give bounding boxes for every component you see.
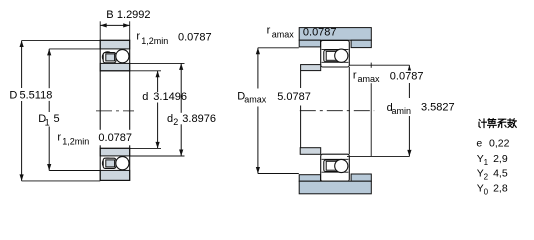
- svg-text:r: r: [267, 25, 271, 37]
- table title calculation factors (Chinese): [479, 119, 516, 128]
- svg-text:2,9: 2,9: [493, 153, 508, 165]
- right view housing shoulder lower right: [351, 174, 371, 181]
- right view lower inner raceway line: [322, 158, 349, 160]
- left view bore line left: [99, 71, 101, 130]
- svg-text:0: 0: [484, 188, 489, 197]
- svg-text:0.0787: 0.0787: [98, 132, 132, 144]
- svg-text:3.8976: 3.8976: [182, 113, 216, 125]
- svg-text:r: r: [353, 69, 357, 81]
- left view centerline: [96, 110, 134, 112]
- right view lower ball: [335, 159, 348, 172]
- dimension d2 extension lines: [130, 62, 185, 64]
- label ramax middle background: [352, 71, 424, 84]
- dimension d extension lines: [130, 70, 161, 72]
- right view housing shoulder upper left: [299, 40, 320, 47]
- svg-text:3.5827: 3.5827: [421, 101, 455, 113]
- dimension B extension lines: [99, 21, 101, 40]
- svg-text:5: 5: [54, 113, 60, 125]
- right view shaft right end line: [370, 63, 372, 68]
- dimension d2 arrows: [179, 63, 183, 70]
- left view outer ring upper cross-section: [100, 40, 130, 49]
- left view upper cage pocket: [106, 54, 115, 61]
- label D1 5 background: [37, 112, 62, 127]
- dimension D1 arrows: [47, 49, 51, 56]
- left view inner ring lower cross-section: [100, 148, 130, 156]
- left view lower hidden ball row: [102, 158, 113, 169]
- right view housing shoulder lower left: [299, 175, 320, 182]
- right view housing shoulder upper right: [351, 40, 371, 47]
- svg-text:1.2992: 1.2992: [117, 9, 151, 21]
- dimension D arrows: [20, 41, 24, 48]
- svg-text:2,8: 2,8: [493, 183, 508, 195]
- right view upper inner raceway line: [322, 61, 349, 63]
- right view upper cage pocket: [326, 51, 337, 60]
- dimension Damax extension lines: [258, 47, 299, 49]
- left view upper cage: [103, 53, 116, 63]
- right view centerline: [300, 110, 374, 112]
- svg-text:B: B: [106, 9, 113, 21]
- dimension damin line: [408, 65, 410, 98]
- svg-text:0.0787: 0.0787: [303, 26, 337, 38]
- svg-text:0.0787: 0.0787: [390, 71, 424, 83]
- dimension Damax line: [257, 48, 259, 89]
- right view housing upper band: [299, 28, 371, 41]
- svg-text:e: e: [476, 137, 482, 149]
- left view bore line stubs above lower section: [99, 145, 101, 148]
- right view shaft end line left: [300, 71, 302, 88]
- svg-text:1,2min: 1,2min: [141, 36, 168, 46]
- right view shaft shoulder upper left: [301, 65, 321, 71]
- right view upper outer raceway line: [322, 48, 349, 50]
- svg-text:r: r: [136, 31, 140, 43]
- right view shaft shoulder lower left: [300, 148, 321, 155]
- svg-text:3.1496: 3.1496: [153, 91, 187, 103]
- dimension B arrows: [100, 23, 107, 27]
- right view bearing right face line: [348, 67, 350, 154]
- svg-text:2: 2: [173, 117, 178, 127]
- label d2 3.8976 background: [164, 113, 218, 125]
- label d 3.1496 background: [141, 92, 179, 103]
- right view lower outer raceway line: [322, 171, 349, 173]
- left view lower section outline: [100, 148, 130, 180]
- dimension d2 line: [180, 63, 182, 156]
- left view bore line right: [129, 71, 131, 130]
- dimension D extension lines: [22, 40, 101, 42]
- dimension Damax arrows: [256, 48, 260, 55]
- left view lower cage pocket: [106, 160, 115, 167]
- label D 5.5118 background: [4, 88, 58, 101]
- svg-text:D: D: [9, 90, 17, 102]
- svg-text:4,5: 4,5: [493, 168, 508, 180]
- svg-text:amax: amax: [358, 74, 381, 84]
- left view inner ring upper cross-section: [100, 63, 130, 70]
- left view upper hidden ball row: [102, 52, 113, 63]
- right view upper ball: [335, 49, 348, 62]
- right view bearing lower section outline: [321, 154, 350, 181]
- dimension B line: [100, 24, 130, 26]
- left view upper section outline: [100, 40, 130, 71]
- left view lower ball: [116, 157, 129, 170]
- svg-text:0.0787: 0.0787: [178, 31, 212, 43]
- svg-text:amax: amax: [272, 29, 295, 39]
- left view lower cage: [103, 158, 116, 168]
- svg-text:r: r: [57, 131, 61, 143]
- left view upper ball: [116, 50, 129, 63]
- right view housing lower band: [299, 181, 371, 194]
- svg-text:1: 1: [484, 158, 489, 167]
- svg-text:d: d: [142, 91, 148, 103]
- svg-text:amax: amax: [244, 94, 267, 104]
- dimension D line: [21, 41, 23, 181]
- right view lower cage: [324, 160, 339, 172]
- svg-text:amin: amin: [392, 106, 412, 116]
- svg-text:5.5118: 5.5118: [20, 90, 53, 102]
- svg-text:0,22: 0,22: [489, 137, 510, 149]
- right view upper cage: [324, 50, 339, 62]
- svg-text:1: 1: [45, 117, 50, 127]
- dimension D1 extension lines: [49, 48, 100, 50]
- dimension damin extension lines: [349, 64, 409, 66]
- svg-text:5.0787: 5.0787: [277, 91, 311, 103]
- dimension D1 line: [48, 49, 50, 88]
- dimension d arrows: [156, 71, 160, 78]
- svg-text:2: 2: [484, 173, 489, 182]
- left view outer ring lower cross-section: [100, 170, 130, 180]
- svg-text:1,2min: 1,2min: [62, 136, 89, 146]
- right view bearing upper section outline: [321, 40, 350, 67]
- right view lower cage pocket: [326, 161, 337, 170]
- dimension damin arrows: [407, 65, 411, 72]
- dimension d line: [157, 71, 159, 149]
